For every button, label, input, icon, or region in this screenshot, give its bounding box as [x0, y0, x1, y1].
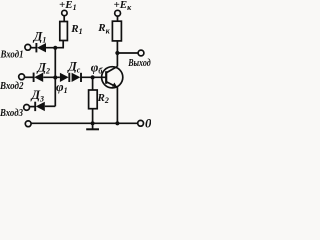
svg-text:0: 0 [145, 115, 151, 130]
label Vhod1 [0, 49, 23, 60]
wire +E1 to R1 [63, 16, 65, 22]
node output junction [115, 51, 119, 55]
ground [86, 123, 99, 129]
wire node vertical [54, 48, 56, 107]
wire Rk to collector [116, 41, 118, 67]
label D1 [33, 29, 47, 44]
wire R2 top lead [92, 77, 94, 90]
label Vhod3 [0, 108, 23, 119]
transistor Q1 [102, 66, 123, 88]
terminal Vhod3 [24, 105, 30, 111]
wire R2 bottom lead [92, 109, 94, 124]
svg-text:Вход1: Вход1 [0, 49, 23, 60]
resistor Rk [112, 21, 121, 41]
wire R1 bottom lead [62, 41, 64, 49]
wire input1 [31, 47, 37, 49]
diode D1 [36, 43, 46, 52]
label Vyhod [127, 58, 150, 69]
wire D3 to node [45, 105, 56, 107]
svg-text:Выход: Выход [127, 58, 150, 69]
label R1 [70, 23, 82, 36]
terminal Vyhod [138, 50, 144, 56]
label D3 [31, 88, 45, 103]
label Vhod2 [0, 81, 24, 92]
resistor R2 [89, 90, 98, 109]
label 0 [145, 115, 152, 130]
node rail R2 junction [91, 121, 95, 125]
terminal +E1 [62, 10, 67, 15]
diode D3 [35, 102, 45, 111]
svg-text:Вход2: Вход2 [0, 81, 24, 92]
diode Dc b [72, 73, 81, 82]
diode D2 [34, 73, 44, 82]
label Rk [97, 22, 110, 35]
label phi-b [91, 59, 104, 75]
terminal common left [25, 121, 31, 127]
svg-text:Вход3: Вход3 [0, 108, 23, 119]
resistor R1 [60, 22, 68, 41]
diode Dc a [60, 73, 69, 82]
node junction 1 [53, 46, 57, 50]
wire +Ek to Rk [117, 16, 119, 21]
label +Ek [114, 0, 133, 12]
wire emitter [116, 87, 118, 123]
label +E1 [59, 0, 77, 12]
wire Dc to base [81, 76, 106, 78]
label Dc [67, 59, 81, 74]
terminal Vhod2 [19, 74, 25, 80]
wire output [117, 52, 138, 54]
node base junction [91, 75, 95, 79]
wire ground rail [31, 122, 138, 124]
wire D1 to node [46, 47, 64, 49]
wire input2 [25, 76, 34, 78]
label R2 [97, 92, 109, 105]
node rail emitter junction [115, 121, 119, 125]
terminal Vhod1 [25, 44, 31, 50]
label D2 [37, 60, 51, 75]
terminal 0 [138, 120, 144, 126]
wire input3 [30, 106, 36, 108]
terminal +Ek [115, 10, 121, 16]
wire D2 to Dc [43, 76, 60, 78]
label phi-1 [56, 79, 68, 95]
node junction 2 [53, 75, 57, 79]
